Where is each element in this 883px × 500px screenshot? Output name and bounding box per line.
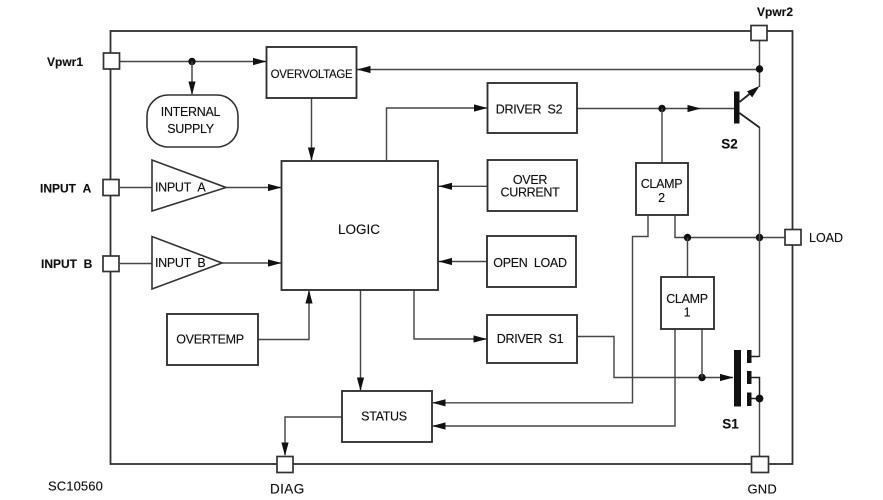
- wire LOGIC down to STATUS: [360, 290, 362, 390]
- wire pin INPUT A to buffer: [120, 187, 152, 189]
- wire DRIVER S1 to S1 gate: [577, 337, 733, 378]
- pin LOAD: [785, 230, 801, 246]
- wire junction down to CLAMP 1: [687, 238, 689, 278]
- pin DIAG: [277, 457, 293, 473]
- IC boundary border: [111, 31, 793, 464]
- wire Vpwr1 to OVERVOLTAGE: [119, 61, 266, 63]
- wire junction down to CLAMP 2: [661, 109, 663, 164]
- pin Vpwr1: [104, 53, 120, 69]
- wire CLAMP 1 to gate junction: [701, 329, 703, 378]
- pin GND: [752, 457, 769, 473]
- block STATUS: [342, 391, 432, 442]
- wire OVERVOLTAGE down to LOGIC: [311, 98, 313, 160]
- node junction clamp 1 tap: [684, 234, 691, 241]
- wire STATUS to DIAG pin: [285, 417, 342, 455]
- svg-text:INPUT A: INPUT A: [40, 182, 92, 196]
- node junction Vpwr2 / overvoltage sense: [756, 65, 763, 72]
- svg-text:INPUT B: INPUT B: [41, 257, 93, 271]
- block OVERTEMP: [167, 314, 258, 365]
- svg-text:S2: S2: [721, 137, 738, 152]
- wire OVER CURRENT to LOGIC: [438, 185, 487, 187]
- svg-text:CURRENT: CURRENT: [500, 186, 560, 200]
- block DRIVER S1: [487, 315, 577, 363]
- wire LOGIC top to DRIVER S2: [387, 108, 488, 161]
- wire buffer A to LOGIC: [226, 187, 281, 189]
- node junction driver S2 / clamp 2: [658, 105, 665, 112]
- svg-text:LOGIC: LOGIC: [338, 222, 380, 237]
- svg-text:OVERTEMP: OVERTEMP: [176, 333, 244, 347]
- wire Vpwr2 rail to OVERVOLTAGE right: [357, 69, 760, 71]
- svg-text:OPEN LOAD: OPEN LOAD: [493, 256, 567, 270]
- block CLAMP 2: [636, 163, 688, 215]
- svg-text:1: 1: [684, 305, 691, 319]
- svg-text:SC10560: SC10560: [48, 479, 103, 494]
- wire CLAMP 2 to LOAD rail: [675, 215, 785, 238]
- wire S2 emitter rail down through LOAD to S1 drain: [759, 127, 761, 357]
- svg-text:DRIVER S2: DRIVER S2: [496, 102, 563, 116]
- block CLAMP 1: [661, 277, 714, 329]
- pin INPUT A: [103, 180, 119, 196]
- wire Vpwr2 pin down to S2 collector: [759, 40, 761, 87]
- wire LOGIC down to DRIVER S1: [414, 290, 486, 339]
- wire OPEN LOAD to LOGIC: [438, 261, 487, 263]
- wire S1 source to GND pin: [759, 399, 761, 457]
- svg-text:S1: S1: [722, 417, 739, 432]
- svg-text:GND: GND: [748, 482, 778, 497]
- svg-text:Vpwr1: Vpwr1: [47, 55, 83, 69]
- svg-text:DRIVER S1: DRIVER S1: [497, 332, 564, 346]
- pin INPUT B: [103, 256, 119, 272]
- block LOGIC: [282, 161, 439, 290]
- node junction S1 source: [756, 395, 764, 403]
- wire junction down to internal supply: [191, 62, 193, 95]
- node junction on Vpwr1 wire: [188, 58, 195, 65]
- node junction gate / clamp 1: [698, 374, 705, 381]
- svg-text:INTERNAL: INTERNAL: [161, 105, 221, 119]
- internal supply block: [147, 95, 238, 147]
- transistor S2: [734, 92, 740, 124]
- wire DRIVER S2 to S2 base: [577, 108, 734, 110]
- transistor S1 (MOSFET): [734, 350, 741, 407]
- svg-text:LOAD: LOAD: [809, 231, 843, 245]
- node junction load / switch rail: [756, 234, 763, 241]
- svg-text:DIAG: DIAG: [270, 482, 305, 497]
- wire CLAMP 2 to STATUS: [433, 215, 648, 403]
- svg-text:CLAMP: CLAMP: [641, 177, 683, 191]
- wire CLAMP 1 to STATUS: [433, 329, 675, 426]
- svg-text:2: 2: [658, 191, 665, 205]
- block OVER CURRENT: [488, 160, 578, 211]
- op-amp buffer INPUT A: [152, 160, 226, 211]
- block DRIVER S2: [488, 83, 578, 133]
- svg-text:OVERVOLTAGE: OVERVOLTAGE: [271, 69, 353, 81]
- op-amp buffer INPUT B: [152, 237, 222, 290]
- wire pin INPUT B to buffer: [120, 263, 152, 265]
- svg-text:INPUT A: INPUT A: [155, 181, 206, 195]
- pin Vpwr2: [751, 26, 767, 41]
- wire OVERTEMP to LOGIC: [258, 291, 309, 340]
- block OVERVOLTAGE: [267, 47, 357, 98]
- block OPEN LOAD: [487, 236, 576, 287]
- svg-text:SUPPLY: SUPPLY: [167, 122, 215, 136]
- svg-text:CLAMP: CLAMP: [666, 292, 708, 306]
- svg-text:INPUT B: INPUT B: [155, 256, 205, 270]
- wire buffer B to LOGIC: [222, 262, 281, 264]
- svg-text:Vpwr2: Vpwr2: [757, 5, 793, 19]
- svg-text:STATUS: STATUS: [361, 410, 407, 424]
